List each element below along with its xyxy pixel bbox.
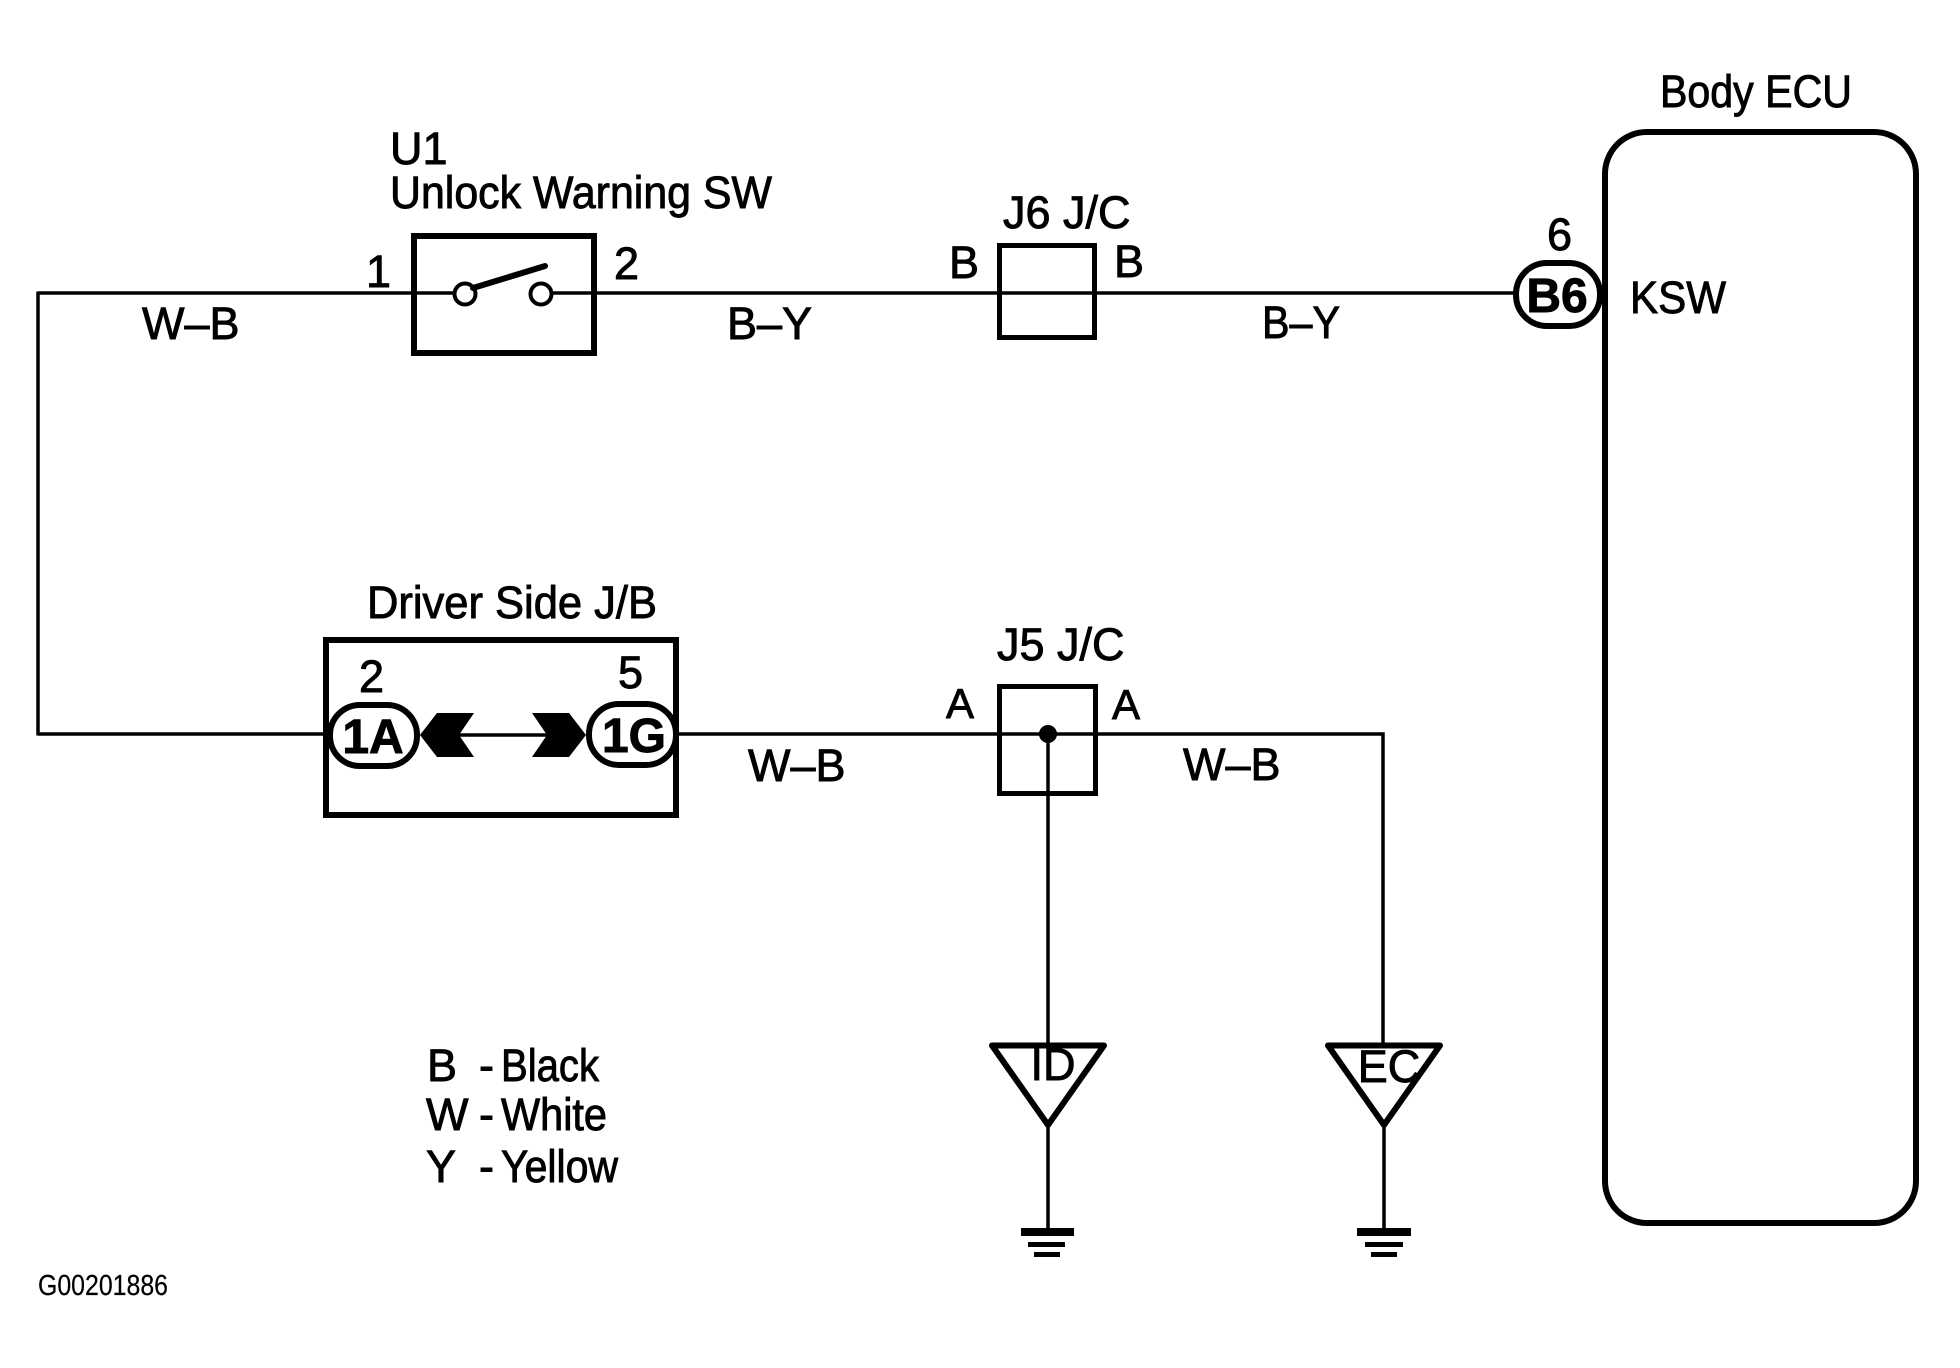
wire ID triangle to ground bbox=[1046, 1126, 1050, 1232]
svg-text:-: - bbox=[479, 1089, 494, 1140]
switch U1 pin 2 contact circle bbox=[531, 284, 552, 305]
svg-text:B: B bbox=[949, 237, 979, 288]
svg-text:KSW: KSW bbox=[1630, 272, 1726, 323]
svg-text:1G: 1G bbox=[602, 710, 666, 763]
ground triangle ID bbox=[992, 1046, 1104, 1126]
junction dot J5 bbox=[1039, 725, 1057, 743]
wire W-B top horizontal bbox=[38, 291, 455, 295]
connector B6 oval bbox=[1516, 263, 1600, 326]
legend B - Black bbox=[427, 1040, 599, 1091]
arrow pointing right at 1G bbox=[532, 713, 586, 757]
svg-text:2: 2 bbox=[359, 651, 384, 702]
svg-text:5: 5 bbox=[618, 647, 643, 698]
wire B-Y switch to connector B6 bbox=[551, 291, 1514, 295]
svg-text:Black: Black bbox=[501, 1040, 599, 1091]
svg-text:2: 2 bbox=[614, 238, 639, 289]
svg-text:1: 1 bbox=[366, 246, 391, 297]
svg-text:-: - bbox=[479, 1141, 494, 1192]
svg-text:W–B: W–B bbox=[1183, 739, 1281, 790]
ground symbol ID bbox=[1021, 1228, 1074, 1257]
svg-text:EC: EC bbox=[1358, 1041, 1421, 1092]
svg-text:B: B bbox=[427, 1040, 457, 1091]
svg-text:W: W bbox=[426, 1089, 469, 1140]
svg-text:-: - bbox=[479, 1040, 494, 1091]
svg-text:Body ECU: Body ECU bbox=[1660, 66, 1852, 117]
svg-text:Y: Y bbox=[426, 1141, 456, 1192]
wire W-B lower left horizontal bbox=[38, 732, 332, 736]
legend W - White bbox=[426, 1089, 607, 1140]
switch U1 lever bbox=[473, 266, 545, 288]
svg-text:A: A bbox=[946, 680, 974, 727]
svg-text:Driver Side J/B: Driver Side J/B bbox=[367, 577, 657, 628]
svg-text:W–B: W–B bbox=[748, 740, 846, 791]
svg-text:Yellow: Yellow bbox=[501, 1141, 618, 1192]
wire left vertical riser bbox=[36, 292, 40, 736]
switch U1 pin 1 contact circle bbox=[455, 284, 476, 305]
svg-text:1A: 1A bbox=[342, 711, 403, 764]
switch U1 box bbox=[414, 236, 594, 353]
svg-text:6: 6 bbox=[1547, 209, 1572, 260]
legend Y - Yellow bbox=[426, 1141, 618, 1192]
wire from J5 junction to ID triangle bbox=[1046, 734, 1050, 1045]
svg-text:B: B bbox=[1114, 236, 1144, 287]
svg-text:B6: B6 bbox=[1526, 270, 1587, 323]
wire between arrows bbox=[455, 733, 550, 737]
svg-text:J5 J/C: J5 J/C bbox=[997, 619, 1125, 670]
svg-text:B–Y: B–Y bbox=[727, 298, 812, 349]
wire W-B from 1G through J5 to EC riser bbox=[679, 734, 1383, 1045]
wire EC triangle to ground bbox=[1382, 1126, 1386, 1232]
svg-text:Unlock Warning SW: Unlock Warning SW bbox=[390, 167, 772, 218]
svg-text:A: A bbox=[1112, 681, 1140, 728]
svg-text:White: White bbox=[501, 1089, 607, 1140]
junction box J6 J/C bbox=[1000, 246, 1095, 338]
connector 1G oval bbox=[589, 704, 676, 765]
svg-text:B–Y: B–Y bbox=[1262, 297, 1340, 348]
ground triangle EC bbox=[1328, 1046, 1440, 1126]
arrow pointing left at 1A bbox=[420, 713, 474, 757]
Body ECU box bbox=[1605, 132, 1916, 1223]
junction box J5 J/C bbox=[1000, 687, 1096, 794]
svg-text:G00201886: G00201886 bbox=[38, 1270, 168, 1302]
junction block Driver Side J/B box bbox=[326, 640, 676, 815]
svg-text:J6 J/C: J6 J/C bbox=[1003, 187, 1131, 238]
ground symbol EC bbox=[1357, 1228, 1411, 1257]
svg-text:ID: ID bbox=[1031, 1039, 1076, 1090]
connector 1A oval bbox=[330, 705, 417, 766]
svg-text:W–B: W–B bbox=[142, 298, 240, 349]
